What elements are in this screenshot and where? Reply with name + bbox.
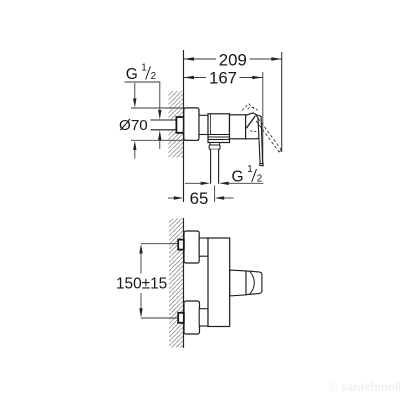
G 1/2 (top) upper arrow to pipe xyxy=(159,82,161,111)
svg-text:Ø70: Ø70 xyxy=(119,117,148,134)
dimension 65 left arrowhead xyxy=(174,196,184,199)
dimension 167 line xyxy=(184,77,263,79)
G 1/2 (bottom) left arrow to pipe xyxy=(185,182,201,184)
dimension 209 line xyxy=(184,58,283,60)
wall face line (top view) xyxy=(183,218,185,348)
dimension 167 right extension line xyxy=(262,72,264,167)
upper union nut (top view) xyxy=(178,240,184,250)
lower escutcheon block (top view) xyxy=(184,301,200,334)
mixer body (top view) xyxy=(208,238,230,327)
body inner vertical line xyxy=(209,114,211,135)
dimension 209 right extension line xyxy=(281,52,283,152)
svg-text:65: 65 xyxy=(190,189,209,208)
wall hatch (top view) xyxy=(169,219,184,348)
dashed arc inside cap xyxy=(250,130,256,131)
dashed pivot arc above cap xyxy=(248,107,258,110)
upper escutcheon block (top view) xyxy=(184,231,199,263)
G 1/2 (top) lower arrow to pipe xyxy=(159,140,161,149)
neck between escutcheon and body (side view) xyxy=(199,115,208,134)
G 1/2 (bottom) right arrow to pipe xyxy=(219,182,229,185)
svg-text:209: 209 xyxy=(219,51,247,70)
cartridge housing (side view) xyxy=(230,115,246,139)
dimension 150±15 lower extension line xyxy=(141,317,178,319)
dimension 209 right arrowhead xyxy=(271,57,281,60)
body bottom banding lines xyxy=(208,135,230,140)
dimension 65 line left part xyxy=(168,197,175,199)
mixer body (side view) xyxy=(208,114,230,143)
cap / cone with lever base (side view) xyxy=(246,113,260,139)
dimension Ø70 upper extension line / escutcheon top xyxy=(131,107,199,109)
dimension 150±15 bottom arrowhead xyxy=(139,308,142,318)
dimension 65 line right part xyxy=(224,197,234,199)
lower neck (top view) xyxy=(199,309,208,326)
dashed open-lever peak lines xyxy=(242,104,255,111)
dashed lever (alternate position, 45 degrees) xyxy=(256,118,281,152)
shower outlet pipe (goes down) xyxy=(211,149,218,183)
lever handle end cap xyxy=(260,164,263,166)
outlet step under body xyxy=(210,143,220,146)
svg-text:G: G xyxy=(126,66,138,83)
supply pipe stub (side view) xyxy=(151,120,177,129)
dimension Ø70 lower extension line / escutcheon bottom xyxy=(131,139,199,141)
G 1/2 (bottom) leader line under text xyxy=(229,182,264,184)
dimension 167 left arrowhead xyxy=(184,76,194,79)
outlet flange nut xyxy=(209,145,220,149)
svg-text:167: 167 xyxy=(209,69,237,88)
upper neck (top view) xyxy=(199,238,208,256)
svg-text:150±15: 150±15 xyxy=(116,276,167,293)
label G 1/2 (top) underline leader xyxy=(125,81,161,83)
lever knob internal arc xyxy=(249,271,254,294)
dashed lever end cap xyxy=(279,150,281,153)
svg-text:2: 2 xyxy=(151,71,156,82)
dimension Ø70 lower arrow xyxy=(134,150,136,159)
dimension 65 pipe-centre extension line xyxy=(214,186,216,203)
escutcheon (side view) xyxy=(184,108,199,140)
svg-text:© santehmoll: © santehmoll xyxy=(329,382,400,394)
wall face line / left extension line (side view) xyxy=(183,50,185,202)
union nut (side view) xyxy=(176,117,183,133)
lower union nut (top view) xyxy=(178,313,184,323)
dimension 167 right arrowhead xyxy=(252,76,262,79)
dimension 150±15 top arrowhead xyxy=(139,244,142,254)
svg-text:1: 1 xyxy=(141,63,146,74)
dimension 150±15 upper extension line xyxy=(141,243,178,245)
wall hatch (side view) xyxy=(169,91,184,158)
dimension 150±15 line with text gap xyxy=(140,253,142,308)
dimension 65 right arrowhead xyxy=(215,196,225,199)
svg-text:1: 1 xyxy=(247,164,252,175)
lever knob (top view, end-on) xyxy=(246,271,262,295)
dimension 209 left arrowhead xyxy=(184,57,194,60)
cartridge dome cone (top view) xyxy=(230,270,246,296)
lever handle (solid, down position) xyxy=(256,115,263,164)
dimension Ø70 upper arrow xyxy=(134,83,136,99)
cap internal diagonal line xyxy=(246,116,255,128)
